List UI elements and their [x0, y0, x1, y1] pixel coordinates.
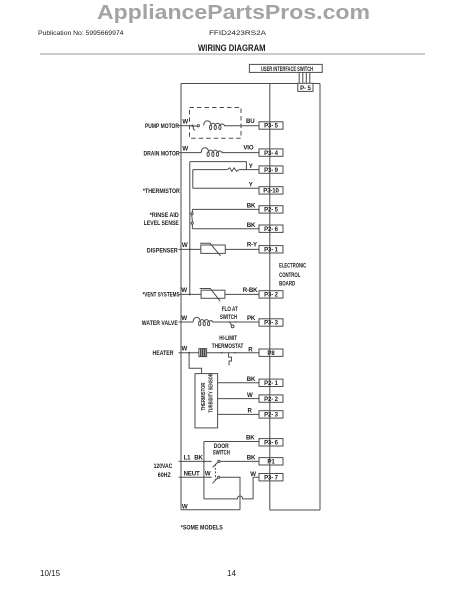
svg-text:L1: L1	[184, 454, 192, 461]
svg-text:ELECTRONIC: ELECTRONIC	[279, 263, 306, 270]
svg-text:W: W	[182, 503, 188, 510]
wire thermistor bottom to P3-10	[193, 170, 259, 189]
svg-text:THERMOSTAT: THERMOSTAT	[212, 344, 244, 350]
connector stubs to P-5	[299, 72, 310, 83]
svg-text:P2- 5: P2- 5	[264, 208, 279, 214]
svg-text:BK: BK	[246, 434, 255, 441]
svg-text:R-BK: R-BK	[243, 287, 258, 294]
electronic control board outline	[270, 84, 320, 511]
title rule	[40, 53, 425, 55]
vent actuator	[200, 289, 225, 302]
svg-text:P3- 7: P3- 7	[264, 475, 279, 481]
wire L1 sense run with hop	[204, 477, 259, 499]
wire L1 input	[179, 460, 211, 462]
svg-text:BU: BU	[246, 118, 255, 125]
svg-text:W: W	[182, 119, 188, 126]
svg-text:THERMISTOR: THERMISTOR	[201, 383, 207, 411]
wire drain to P3-4	[222, 152, 259, 154]
turbidity sensor box	[195, 373, 218, 428]
svg-text:P2- 6: P2- 6	[264, 227, 279, 233]
svg-text:LEVEL SENSE: LEVEL SENSE	[144, 220, 179, 227]
connector P3-9	[259, 166, 283, 174]
svg-text:HEATER: HEATER	[153, 350, 174, 357]
wire water valve to P3-3	[213, 321, 259, 323]
connector P3-4	[259, 149, 283, 157]
svg-text:P8: P8	[267, 351, 275, 357]
connector P2-5	[259, 206, 283, 214]
svg-text:W: W	[250, 471, 256, 478]
electronic control board label	[279, 263, 306, 288]
svg-text:10/15: 10/15	[40, 569, 61, 578]
svg-text:BOARD: BOARD	[279, 280, 295, 287]
connector P1	[259, 458, 283, 466]
connector P2-3	[259, 411, 283, 419]
svg-text:SWITCH: SWITCH	[213, 451, 230, 457]
svg-text:DISPENSER: DISPENSER	[147, 247, 178, 254]
svg-text:P3- 9: P3- 9	[264, 168, 279, 174]
heater element	[199, 349, 207, 357]
svg-text:P3- 4: P3- 4	[264, 151, 279, 157]
wire heater W	[179, 352, 199, 354]
pump motor dashed enclosure	[190, 108, 242, 139]
svg-text:USER INTERFACE SWITCH: USER INTERFACE SWITCH	[261, 66, 313, 73]
wire door switch BK to P3-6	[204, 441, 259, 443]
svg-text:P- 5: P- 5	[300, 86, 311, 92]
wire dispenser to P3-1	[225, 248, 259, 250]
svg-text:P3- 3: P3- 3	[264, 321, 279, 327]
water valve winding	[193, 317, 213, 325]
svg-text:*RINSE AID: *RINSE AID	[150, 212, 179, 219]
svg-text:P1: P1	[267, 460, 275, 466]
svg-text:BK: BK	[247, 376, 256, 383]
hi-limit thermostat	[221, 352, 236, 365]
wire thermistor mid to P3-9	[193, 169, 259, 171]
wire rinse aid top to P2-5	[192, 209, 259, 212]
svg-text:PK: PK	[247, 315, 256, 322]
wire drain W	[179, 152, 202, 154]
connector P3-6	[259, 439, 283, 447]
wire turbidity W to P2-2	[218, 398, 259, 400]
svg-text:BK: BK	[194, 454, 203, 461]
wire thermistor top loop	[190, 162, 247, 170]
node vent junction	[189, 293, 191, 295]
svg-text:W: W	[182, 146, 188, 153]
svg-text:W: W	[182, 242, 188, 249]
node heater junction	[188, 352, 190, 354]
connector P2-2	[259, 395, 283, 403]
svg-text:CONTROL: CONTROL	[279, 272, 300, 279]
svg-text:W: W	[247, 392, 253, 399]
svg-text:120VAC: 120VAC	[154, 463, 173, 470]
svg-text:R: R	[248, 408, 253, 415]
door switch linkage	[214, 464, 216, 481]
node L1 junction	[203, 460, 205, 462]
svg-text:BK: BK	[247, 454, 256, 461]
connector P8	[259, 349, 283, 357]
connector P3-3	[259, 319, 283, 327]
svg-text:14: 14	[227, 569, 236, 578]
connector P-5	[298, 83, 313, 92]
wire heater branch to turbidity sensor	[189, 353, 202, 374]
wire L1 to P1	[220, 460, 259, 462]
connector P3-7	[259, 474, 283, 482]
svg-text:W: W	[182, 346, 188, 353]
wire turbidity R to P2-3	[218, 413, 259, 415]
connector P2-1	[259, 379, 283, 387]
wire neutral bus	[180, 84, 182, 510]
svg-text:DRAIN MOTOR: DRAIN MOTOR	[144, 150, 180, 157]
svg-text:W: W	[181, 287, 187, 294]
wire heater to P8	[207, 352, 259, 354]
svg-text:*THERMISTOR: *THERMISTOR	[143, 188, 180, 195]
svg-text:TURBIDITY SENSOR: TURBIDITY SENSOR	[208, 373, 214, 412]
svg-text:W: W	[205, 471, 211, 478]
svg-text:P2- 1: P2- 1	[264, 381, 279, 387]
svg-text:*VENT SYSTEMS: *VENT SYSTEMS	[143, 291, 180, 298]
connector P2-6	[259, 225, 283, 233]
door switch NEUT pole	[210, 476, 220, 483]
svg-text:FLO AT: FLO AT	[222, 307, 238, 313]
svg-text:*SOME MODELS: *SOME MODELS	[181, 525, 223, 532]
svg-text:Y: Y	[249, 181, 253, 188]
wire NEUT input	[179, 476, 211, 478]
wire dispenser W	[179, 248, 201, 250]
svg-text:P3-10: P3-10	[263, 189, 279, 195]
svg-text:FFID2423RS2A: FFID2423RS2A	[209, 30, 267, 37]
float switch	[229, 321, 237, 328]
svg-text:DOOR: DOOR	[214, 444, 230, 450]
connector P3-5	[259, 122, 283, 130]
wire NEUT switched to bus	[220, 477, 240, 509]
svg-text:VIO: VIO	[243, 145, 253, 152]
svg-text:P2- 3: P2- 3	[264, 413, 279, 419]
pump motor winding	[204, 121, 225, 130]
wire thermistor left drop	[189, 162, 191, 295]
connector P3-2	[259, 291, 283, 299]
wire top line	[181, 83, 320, 85]
thermistor element zigzag	[227, 168, 239, 171]
svg-text:HI-LIMIT: HI-LIMIT	[219, 336, 237, 342]
wire water valve W	[179, 321, 194, 323]
wire rinse aid bottom to P2-6	[192, 224, 259, 228]
svg-text:WIRING DIAGRAM: WIRING DIAGRAM	[198, 43, 266, 53]
svg-text:PUMP MOTOR: PUMP MOTOR	[145, 123, 179, 130]
node dispenser junction	[189, 248, 191, 250]
svg-text:NEUT: NEUT	[184, 471, 200, 478]
wire L1 sense drop	[203, 442, 205, 499]
wire turbidity BK to P2-1	[218, 382, 259, 384]
svg-text:Publication No: 5995669974: Publication No: 5995669974	[38, 30, 124, 37]
svg-text:SWITCH: SWITCH	[220, 315, 237, 321]
connector P3-10	[259, 187, 283, 195]
pump motor internal switch	[192, 125, 200, 130]
svg-text:P3- 6: P3- 6	[264, 441, 279, 447]
svg-text:P3- 1: P3- 1	[264, 248, 279, 254]
svg-text:AppliancePartsPros.com: AppliancePartsPros.com	[97, 2, 370, 24]
drain motor winding	[201, 148, 222, 157]
svg-text:Y: Y	[249, 163, 253, 170]
connector P3-1	[259, 246, 283, 254]
svg-text:W: W	[181, 315, 187, 322]
svg-text:R: R	[248, 346, 253, 353]
svg-text:R-Y: R-Y	[247, 242, 257, 249]
svg-text:P2- 2: P2- 2	[264, 397, 279, 403]
wire pump to P3-5	[225, 125, 259, 127]
svg-text:WATER VALVE: WATER VALVE	[142, 320, 178, 327]
door switch L1 pole	[210, 460, 220, 467]
wire vent W	[179, 293, 202, 295]
svg-text:BK: BK	[247, 222, 256, 229]
wire pump W	[179, 125, 193, 127]
dispenser actuator	[200, 243, 225, 256]
svg-text:P3- 2: P3- 2	[264, 293, 279, 299]
svg-text:60HZ: 60HZ	[158, 472, 171, 479]
rinse aid switch	[191, 213, 193, 225]
wire vent to P3-2	[225, 293, 259, 295]
svg-text:BK: BK	[247, 203, 256, 210]
svg-text:P3- 5: P3- 5	[264, 124, 279, 130]
wire bottom neutral W	[181, 509, 240, 511]
user interface switch box	[249, 64, 322, 73]
